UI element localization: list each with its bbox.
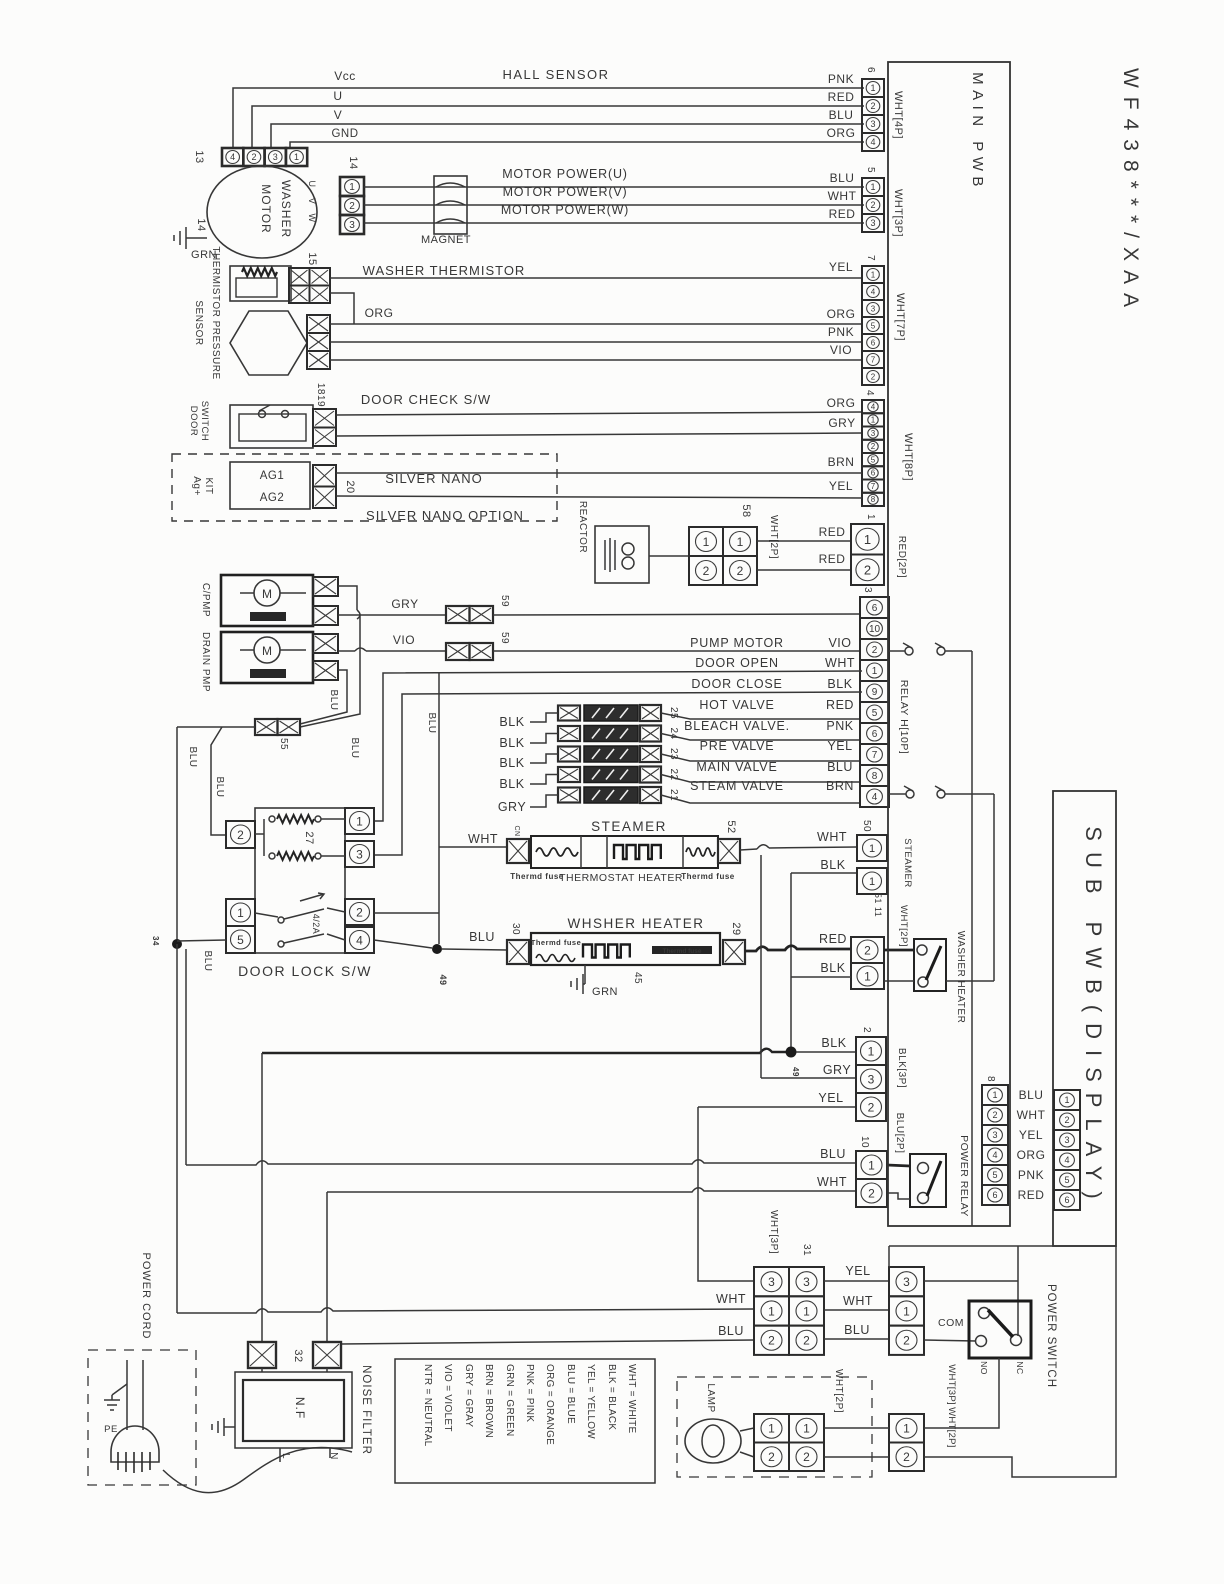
svg-text:THERMISTOR PRESSURE: THERMISTOR PRESSURE [210,246,221,379]
svg-text:2: 2 [803,1334,810,1348]
junction dot left [172,939,182,949]
svg-text:30: 30 [510,923,521,935]
svg-text:6: 6 [871,339,876,348]
steamer WHT wire to pwb [740,849,757,850]
lamp wires [740,1428,754,1431]
noise filter box [261,1368,263,1372]
svg-text:13: 13 [193,150,205,163]
svg-text:POWER SWITCH: POWER SWITCH [1045,1284,1057,1388]
svg-text:BLU: BLU [820,1147,846,1161]
svg-text:YEL: YEL [827,739,852,753]
svg-text:3: 3 [803,1275,810,1289]
svg-text:2: 2 [861,1027,872,1033]
connector WHT[3P] motor power [862,178,884,232]
svg-text:1: 1 [737,535,744,549]
svg-text:WHT = WHITE: WHT = WHITE [626,1364,637,1434]
svg-text:RED: RED [829,207,856,221]
svg-text:NO: NO [979,1361,989,1375]
svg-text:POWER CORD: POWER CORD [140,1253,152,1340]
svg-text:ORG: ORG [827,126,856,140]
BLU wire to door lock pin2 [177,726,255,728]
sub pwb board outline [1053,791,1116,1246]
svg-text:4: 4 [871,288,876,297]
svg-text:31: 31 [801,1244,812,1256]
svg-text:PE: PE [104,1424,118,1435]
YEL wire [698,1106,856,1108]
drain pump [221,632,313,683]
connector RELAY H[10P] [860,597,889,807]
svg-text:27: 27 [303,831,315,844]
svg-text:YEL = YELLOW: YEL = YELLOW [585,1364,596,1439]
door check connector [313,409,336,446]
svg-text:YEL: YEL [829,479,853,493]
svg-text:YEL: YEL [845,1264,870,1278]
power cord dashed box [88,1350,196,1485]
svg-text:49: 49 [438,974,448,985]
svg-text:1: 1 [1064,1095,1069,1105]
relay contact lower [889,793,906,795]
svg-text:THERMOSTAT HEATER: THERMOSTAT HEATER [559,872,683,884]
connector WHT[4P] on main pwb [862,79,884,151]
heater right cell [723,940,745,964]
relay contact upper [889,650,905,652]
svg-text:Thermd fuse: Thermd fuse [662,948,701,955]
valve 25 [558,706,580,721]
svg-text:N.F: N.F [293,1397,307,1419]
svg-text:29: 29 [730,922,742,935]
svg-text:Thermd fuse: Thermd fuse [510,872,564,881]
svg-text:WHT: WHT [825,656,855,670]
svg-text:5: 5 [871,322,876,331]
svg-text:V: V [307,198,317,205]
door lock right cells [345,808,374,834]
svg-text:1: 1 [871,271,876,280]
svg-text:5: 5 [237,933,244,947]
svg-text:BLU: BLU [827,760,853,774]
BLU long wire [186,1160,856,1165]
svg-text:50: 50 [861,820,872,832]
BLK stub from heater cell1 [791,976,851,978]
svg-text:5: 5 [872,708,878,719]
svg-text:5: 5 [992,1170,997,1180]
svg-text:59: 59 [499,632,510,644]
svg-text:BLK: BLK [820,961,845,975]
inline connector 55 (BLU) [255,719,300,735]
svg-text:BLK: BLK [827,677,852,691]
valve 22 [558,767,580,782]
svg-text:POWER RELAY: POWER RELAY [958,1135,970,1217]
svg-text:49: 49 [791,1067,800,1077]
svg-text:WASHER: WASHER [279,180,293,238]
svg-text:4: 4 [864,390,875,396]
svg-text:W: W [307,214,317,223]
svg-text:WHT: WHT [716,1292,746,1306]
svg-text:COM: COM [938,1317,964,1329]
connector RED[2P] [851,524,884,585]
connector WHT[2P] lamp [754,1414,824,1471]
svg-text:2: 2 [237,828,244,842]
wires to right block [824,1280,889,1282]
svg-text:3: 3 [273,152,278,162]
svg-text:2: 2 [868,1186,875,1200]
steamer assembly [531,836,718,868]
svg-text:7: 7 [871,356,876,365]
svg-text:2: 2 [768,1334,775,1348]
svg-text:SUB PWB(DISPLAY): SUB PWB(DISPLAY) [1081,826,1106,1209]
svg-text:HOT VALVE: HOT VALVE [699,698,774,712]
svg-text:REACTOR: REACTOR [577,501,588,553]
inline connector 59 (GRY) [446,606,493,623]
svg-text:6: 6 [1064,1195,1069,1205]
svg-text:8: 8 [985,1076,996,1082]
svg-text:WHT[3P] WHT[2P]: WHT[3P] WHT[2P] [946,1364,957,1447]
svg-text:1: 1 [903,1422,910,1436]
svg-text:SWITCH: SWITCH [199,401,210,441]
svg-text:1: 1 [349,182,355,193]
svg-text:WHSHER HEATER: WHSHER HEATER [567,916,704,931]
washer heater relay [914,939,946,991]
connector 13 (hall, 4 cells) [222,148,307,166]
svg-text:DOOR OPEN: DOOR OPEN [695,656,779,670]
svg-text:BLK[3P]: BLK[3P] [896,1048,907,1088]
svg-text:2: 2 [864,562,871,577]
svg-text:5: 5 [871,455,876,464]
svg-text:PUMP MOTOR: PUMP MOTOR [690,636,784,650]
svg-text:WHT: WHT [468,832,498,846]
svg-text:U: U [307,181,317,188]
BLK bold wire from noise filter [262,1049,786,1053]
BLU/WHT routing verticals from junction [176,944,178,1313]
svg-text:BLU: BLU [187,747,198,768]
svg-text:M: M [262,644,272,658]
power switch feed [889,1245,1116,1247]
heater ground GRN [584,965,586,984]
junction dot BLK [786,1047,797,1058]
WHT long wire [327,1188,856,1192]
cord wave [163,1447,352,1492]
svg-text:7: 7 [871,482,876,491]
svg-text:1819: 1819 [315,383,326,407]
svg-text:PNK: PNK [828,325,854,339]
svg-text:1: 1 [803,1304,810,1318]
svg-text:PNK: PNK [1018,1168,1044,1182]
svg-text:1: 1 [803,1422,810,1436]
svg-text:1: 1 [864,532,871,547]
pressure connector cells [307,315,330,369]
svg-text:GRY: GRY [391,597,418,611]
magnet (rotor position) [434,176,467,234]
svg-text:2: 2 [864,943,871,957]
svg-text:SENSOR: SENSOR [193,300,204,345]
svg-text:4: 4 [1064,1155,1069,1165]
svg-text:2: 2 [903,1334,910,1348]
svg-text:VIO = VIOLET: VIO = VIOLET [442,1364,453,1432]
svg-text:BLU: BLU [829,108,854,122]
svg-text:3: 3 [870,119,875,129]
svg-text:3: 3 [992,1130,997,1140]
connector WHT[2P] 58 (2x2 cells) [689,527,757,585]
main-sub harness left connector [982,1085,1008,1205]
svg-text:DOOR CHECK S/W: DOOR CHECK S/W [361,392,491,407]
svg-text:32: 32 [292,1349,304,1362]
svg-text:WHT[3P]: WHT[3P] [892,189,904,237]
VIO wire pump to relay [338,650,355,652]
svg-text:2: 2 [803,1450,810,1464]
connector WHT[8P] [862,400,884,506]
svg-text:WHT[4P]: WHT[4P] [892,91,904,139]
svg-text:BLU: BLU [214,777,225,798]
svg-text:WHT: WHT [817,1175,847,1189]
svg-text:58: 58 [740,504,752,517]
svg-text:2: 2 [868,1100,875,1114]
relay bridge verticals [971,651,973,1226]
svg-text:WHT[3P]: WHT[3P] [768,1210,779,1254]
svg-text:RELAY H[10P]: RELAY H[10P] [898,680,910,754]
svg-text:MOTOR: MOTOR [259,184,273,233]
valve wire 1 [661,713,860,719]
lamp [685,1419,741,1463]
steamer left wire WHT [439,846,507,848]
svg-text:2: 2 [872,645,878,656]
circulation pump C/PMP [221,575,313,626]
svg-text:RED: RED [828,90,855,104]
svg-text:SILVER NANO OPTION: SILVER NANO OPTION [366,508,524,523]
svg-text:RED: RED [819,932,847,946]
door lock left cells [226,821,255,848]
svg-text:2: 2 [703,564,710,578]
svg-text:WHT[2P]: WHT[2P] [833,1369,844,1413]
noise filter connector 32 [248,1342,276,1368]
svg-text:SILVER NANO: SILVER NANO [385,471,482,486]
svg-text:NOISE FILTER: NOISE FILTER [360,1365,372,1455]
svg-text:HALL SENSOR: HALL SENSOR [502,67,609,82]
svg-text:PNK: PNK [826,719,853,733]
connector 14 (motor, 3 cells) [340,177,364,234]
svg-text:1: 1 [868,1044,875,1058]
svg-text:ORG: ORG [365,306,394,320]
svg-text:1: 1 [294,152,299,162]
svg-text:4: 4 [872,792,878,803]
svg-text:GRY: GRY [823,1063,852,1077]
svg-text:1: 1 [237,906,244,920]
svg-text:51 11: 51 11 [873,893,883,917]
steamer BLK wire [791,872,857,874]
svg-text:BLK: BLK [499,715,524,729]
svg-text:2: 2 [737,564,744,578]
GRY wire pump to relay [338,586,357,610]
steamer BLK vertical [790,873,792,1048]
BLU branch vertical [438,673,440,944]
svg-text:3: 3 [871,429,876,438]
pressure sensor B1 (hexagon) [230,311,307,375]
svg-text:6: 6 [992,1190,997,1200]
svg-text:WHT: WHT [1017,1108,1046,1122]
svg-text:1: 1 [864,969,871,983]
svg-text:BLU: BLU [830,171,855,185]
svg-text:BLU: BLU [349,738,360,759]
svg-text:YEL: YEL [818,1091,843,1105]
noise filter L vertical [261,1053,263,1342]
plug [111,1426,159,1462]
svg-text:6: 6 [872,729,878,740]
svg-text:STEAMER: STEAMER [591,819,667,834]
svg-text:WHT: WHT [828,189,857,203]
steamer right cell [718,839,740,863]
svg-text:2: 2 [349,201,355,212]
svg-text:6: 6 [865,67,876,73]
svg-text:14: 14 [195,218,207,231]
svg-text:DOOR LOCK S/W: DOOR LOCK S/W [238,963,372,979]
svg-text:1: 1 [768,1422,775,1436]
svg-text:GRY: GRY [828,416,855,430]
svg-text:BLU: BLU [1019,1088,1044,1102]
svg-text:2: 2 [870,200,875,210]
svg-text:2: 2 [992,1110,997,1120]
svg-text:STEAM VALVE: STEAM VALVE [690,779,784,793]
svg-text:4: 4 [871,402,876,411]
svg-text:3: 3 [870,218,875,228]
door check switch S1 [230,405,313,448]
svg-text:4/2A: 4/2A [311,914,321,935]
ORG link wire [330,293,354,324]
svg-text:VIO: VIO [393,633,415,647]
svg-text:7: 7 [865,255,876,261]
svg-text:2: 2 [870,101,875,111]
svg-text:BRN: BRN [828,455,855,469]
door open wire [374,671,862,821]
lamp right block [889,1414,924,1471]
svg-text:GRY = GRAY: GRY = GRAY [463,1364,474,1427]
svg-text:34: 34 [151,936,160,946]
svg-text:V: V [334,108,343,122]
svg-text:7: 7 [872,750,878,761]
svg-text:15: 15 [306,252,318,265]
svg-text:10: 10 [869,624,881,635]
svg-text:VIO: VIO [828,636,851,650]
svg-text:5: 5 [865,167,876,173]
door lock s/w box [255,808,345,953]
svg-text:55: 55 [278,738,289,750]
svg-text:1: 1 [868,1158,875,1172]
svg-text:6: 6 [871,469,876,478]
svg-text:CN: CN [513,825,520,836]
svg-text:WHT[2P]: WHT[2P] [768,515,779,559]
svg-text:M: M [262,587,272,601]
svg-text:2: 2 [1064,1115,1069,1125]
svg-text:2: 2 [768,1450,775,1464]
valve wire 4 [661,775,860,783]
WHT long wire to 3P [177,1308,754,1313]
svg-text:BLU: BLU [718,1324,744,1338]
svg-text:DRAIN PMP: DRAIN PMP [200,632,211,692]
svg-text:NC: NC [1015,1361,1025,1374]
svg-text:STEAMER: STEAMER [902,838,913,887]
svg-text:BLU: BLU [844,1323,870,1337]
heater RED bold wire [745,946,851,951]
svg-text:RED: RED [819,525,846,539]
svg-text:BLU: BLU [328,690,339,711]
svg-text:WHT: WHT [843,1294,873,1308]
thermistor wire YEL [330,277,862,279]
svg-text:GRN = GREEN: GRN = GREEN [504,1364,515,1436]
heater BLU wire [442,949,507,950]
svg-text:10: 10 [859,1136,870,1148]
svg-text:1: 1 [992,1090,997,1100]
svg-text:1: 1 [871,416,876,425]
noise filter ground [224,1426,235,1428]
svg-text:2: 2 [871,442,876,451]
svg-text:3: 3 [862,587,873,593]
svg-text:WF438***/XAA: WF438***/XAA [1119,68,1142,316]
wire color legend box [395,1359,655,1483]
svg-text:4: 4 [992,1150,997,1160]
svg-text:1: 1 [869,876,875,888]
svg-text:52: 52 [725,820,737,833]
svg-text:4: 4 [870,137,875,147]
main pwb board outline [888,62,1010,1226]
junction dot right [432,944,442,954]
svg-text:VIO: VIO [830,343,852,357]
silver kit box AG1/AG2 [230,462,310,509]
svg-text:Vcc: Vcc [334,69,356,83]
svg-text:GRY: GRY [498,800,527,814]
svg-text:C/PMP: C/PMP [200,583,211,617]
svg-text:KIT: KIT [203,477,214,494]
svg-text:MAIN VALVE: MAIN VALVE [696,760,777,774]
valve wire 2 [661,734,860,741]
svg-text:Thermd fuse: Thermd fuse [531,938,582,947]
svg-text:MAGNET: MAGNET [421,234,471,246]
thermistor connector 15 [289,268,330,303]
svg-text:WHT[8P]: WHT[8P] [902,433,914,481]
svg-text:GND: GND [331,128,358,140]
svg-text:PRE VALVE: PRE VALVE [700,739,775,753]
svg-text:3: 3 [356,847,363,861]
svg-text:MOTOR POWER(U): MOTOR POWER(U) [502,167,628,181]
svg-text:WASHER HEATER: WASHER HEATER [955,931,966,1024]
svg-text:MOTOR POWER(W): MOTOR POWER(W) [501,203,629,217]
pressure wires ORG/PNK/VIO [330,323,862,325]
svg-text:2: 2 [903,1450,910,1464]
svg-text:1: 1 [356,814,363,828]
svg-text:9: 9 [872,687,878,698]
svg-text:2: 2 [871,373,876,382]
svg-text:BLU: BLU [469,930,495,944]
svg-text:BLK: BLK [499,756,524,770]
wire cell4 to junction [374,940,432,948]
washer motor M1 [207,166,317,258]
valve 24 [558,726,580,741]
svg-text:DOOR CLOSE: DOOR CLOSE [691,677,782,691]
svg-text:1: 1 [903,1304,910,1318]
svg-text:Thermd fuse: Thermd fuse [681,872,735,881]
silver nano wires BRN/YEL [336,472,862,474]
svg-text:3: 3 [871,305,876,314]
svg-text:WHT: WHT [817,830,847,844]
noise filter N vertical [326,1192,328,1342]
connector BLK[3P] [856,1037,886,1065]
motor power wires [364,186,864,188]
svg-text:4: 4 [230,152,235,162]
washer thermistor RT1 [230,266,291,301]
svg-text:2: 2 [251,152,256,162]
svg-text:BRN: BRN [826,779,854,793]
steamer left cell [507,839,529,863]
connector heater 2P [851,937,884,963]
svg-text:3: 3 [903,1275,910,1289]
svg-text:3: 3 [868,1072,875,1086]
svg-text:5: 5 [1064,1175,1069,1185]
